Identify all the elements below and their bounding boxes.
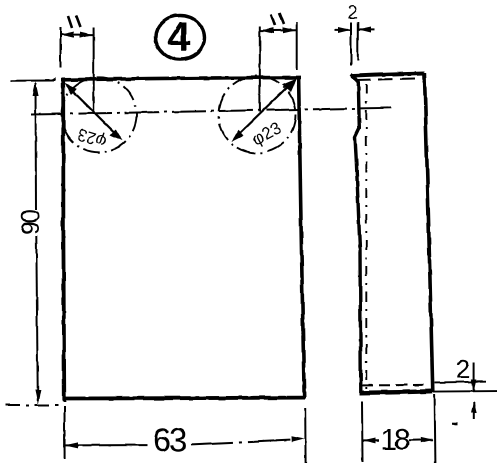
diameter leader left: [65, 83, 123, 141]
dim 2 top: dimension line arrows pointing inward from outside: [335, 29, 352, 31]
side view hidden line top (dashed): [356, 78, 421, 80]
svg-text:2: 2: [456, 356, 470, 384]
side view outline: [351, 73, 425, 76]
dim 18: dimension line with outward arrows: [363, 440, 379, 442]
dim 63: extension lines: [64, 406, 66, 459]
left hole circle φ23: [62, 77, 137, 152]
svg-text:63: 63: [153, 422, 186, 459]
side view hidden line bottom (dashed): [362, 384, 428, 387]
dim 2 top: extension lines: [350, 22, 352, 66]
small blob at end of top extension: [49, 78, 56, 82]
dim 11 right: "11" as two slanted strokes: [271, 13, 284, 26]
front view outline: [63, 81, 64, 402]
dim 2 bottom: extension lines: [435, 381, 487, 384]
svg-text:2: 2: [347, 2, 357, 22]
svg-text:4: 4: [168, 13, 191, 59]
dim 90: top extension line: [11, 80, 54, 82]
dim 63: dimension line (left solid, right dash-dot): [65, 444, 147, 446]
balloon circle: [156, 16, 205, 60]
right hole circle φ23: [219, 76, 296, 153]
dim 2 bottom: dimension line segments with arrows: [473, 363, 475, 391]
svg-text:90: 90: [17, 210, 45, 235]
dim 11 left: dimension line with arrows: [61, 34, 94, 36]
dim 90: bottom extension line (dashed): [6, 404, 58, 406]
dim 11 right: dimension line with arrows: [260, 29, 297, 31]
dim 11 right: extension lines: [259, 26, 261, 112]
dim 11 left: "11" as two slanted strokes: [68, 15, 81, 28]
dim 11 left: extension lines: [60, 28, 62, 69]
centerline through hole centers: [31, 108, 391, 115]
dim 90: dimension line vertical: [35, 83, 38, 210]
stray mark: [452, 422, 457, 425]
svg-text:18: 18: [380, 423, 410, 456]
side view hidden vertical line (dash-dot): [365, 84, 367, 389]
dim 18: extension lines: [361, 402, 364, 463]
diameter leader right: [232, 78, 297, 141]
